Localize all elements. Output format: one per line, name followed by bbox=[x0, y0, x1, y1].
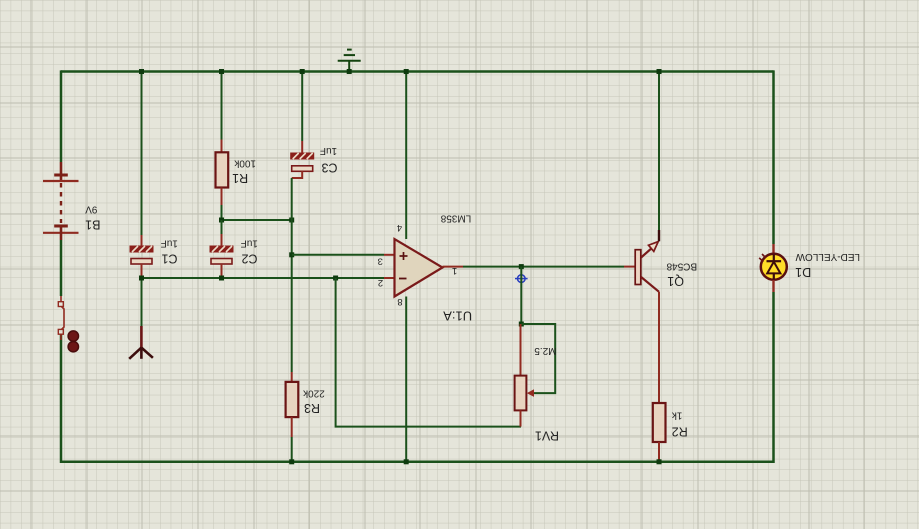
wire node A horizontal bbox=[222, 219, 292, 221]
node C2 bus junction bbox=[219, 276, 224, 281]
svg-text:9V: 9V bbox=[85, 203, 98, 214]
node feedback drop junction bbox=[333, 276, 338, 281]
resistor R1 bbox=[216, 72, 257, 206]
ref label B1 bbox=[85, 217, 100, 231]
svg-text:B1: B1 bbox=[85, 217, 100, 231]
capacitor C2 bbox=[210, 220, 258, 278]
ref label R3 bbox=[304, 401, 320, 415]
value label 9V bbox=[85, 203, 98, 214]
pin 4 number bbox=[397, 222, 402, 233]
origin marker blue crosshair bbox=[515, 272, 528, 285]
node Q1 emitter top junction bbox=[657, 69, 662, 74]
ref label RV1 bbox=[535, 429, 559, 443]
svg-text:R2: R2 bbox=[672, 424, 688, 438]
node B junction plus-input tee bbox=[289, 252, 294, 257]
potentiometer RV1 bbox=[515, 324, 559, 443]
node A junction right bbox=[289, 218, 294, 223]
ref label R2 bbox=[672, 424, 688, 438]
wire output bbox=[443, 266, 636, 268]
node RV1 top junction bbox=[519, 322, 524, 327]
svg-text:U1:A: U1:A bbox=[443, 308, 472, 323]
node C1 bus junction bbox=[139, 276, 144, 281]
value label 100k bbox=[233, 158, 256, 169]
transistor Q1 bbox=[635, 72, 697, 404]
ref label U1:A bbox=[443, 308, 472, 323]
capacitor C3 bbox=[290, 72, 337, 179]
pin 8 number bbox=[397, 296, 402, 307]
svg-text:R3: R3 bbox=[304, 401, 320, 415]
wire top rail bbox=[61, 70, 774, 73]
svg-text:LM358: LM358 bbox=[440, 213, 471, 224]
wire output to RV1 node bbox=[520, 267, 522, 324]
svg-text:BC548: BC548 bbox=[666, 261, 697, 272]
node output junction bbox=[519, 264, 524, 269]
node pin8 bottom junction bbox=[404, 459, 409, 464]
wire bottom rail bbox=[61, 461, 774, 464]
svg-text:1uF: 1uF bbox=[320, 145, 337, 156]
wire minus input bus bbox=[142, 277, 395, 279]
switch SW1 bbox=[58, 296, 78, 352]
wire feedback drop to RV1 bottom bbox=[336, 278, 521, 427]
svg-text:C3: C3 bbox=[321, 161, 337, 175]
ref label D1 bbox=[795, 265, 811, 279]
value label M2.5 bbox=[534, 345, 557, 356]
op-amp U1 bbox=[378, 213, 473, 324]
svg-text:D1: D1 bbox=[795, 265, 811, 279]
svg-text:3: 3 bbox=[378, 255, 383, 266]
value label BC548 bbox=[666, 261, 697, 272]
pin 2 number bbox=[378, 277, 383, 288]
svg-text:C2: C2 bbox=[241, 252, 257, 266]
ground symbol top bbox=[338, 50, 361, 72]
node R3 bottom junction bbox=[289, 459, 294, 464]
wire plus input bbox=[292, 254, 395, 256]
svg-text:1uF: 1uF bbox=[161, 237, 178, 248]
resistor R3 bbox=[286, 372, 325, 462]
wire C3 branch vertical bbox=[291, 178, 293, 372]
svg-text:RV1: RV1 bbox=[535, 429, 559, 443]
ref label C2 bbox=[241, 252, 257, 266]
svg-text:2: 2 bbox=[378, 277, 383, 288]
svg-text:4: 4 bbox=[397, 222, 402, 233]
LED D1 bbox=[759, 244, 860, 292]
svg-text:1k: 1k bbox=[671, 410, 683, 421]
value label 1k bbox=[671, 410, 683, 421]
svg-text:Q1: Q1 bbox=[667, 274, 684, 288]
svg-text:M2.5: M2.5 bbox=[534, 345, 557, 356]
ref label C3 bbox=[321, 161, 337, 175]
wire op-amp pin4 to top rail bbox=[405, 72, 407, 240]
node A junction left bbox=[219, 218, 224, 223]
battery B1 bbox=[43, 162, 100, 240]
ref label Q1 bbox=[667, 274, 684, 288]
svg-text:8: 8 bbox=[397, 296, 402, 307]
node C3 top junction bbox=[300, 69, 305, 74]
resistor R2 bbox=[653, 403, 688, 462]
value label 220k bbox=[302, 387, 325, 398]
value label 1uF bbox=[161, 237, 178, 248]
svg-text:LED-YELLOW: LED-YELLOW bbox=[795, 251, 860, 262]
node pin4 top junction bbox=[404, 69, 409, 74]
pin 1 number bbox=[452, 265, 457, 276]
svg-text:R1: R1 bbox=[232, 171, 248, 185]
wire R1 to node A bbox=[221, 205, 223, 220]
node R1 top junction bbox=[219, 69, 224, 74]
wire left rail battery branch bbox=[60, 70, 63, 463]
value label LED-YELLOW bbox=[795, 251, 860, 262]
pin 3 number bbox=[378, 255, 383, 266]
svg-text:1uF: 1uF bbox=[241, 237, 258, 248]
wire right rail LED branch bbox=[772, 70, 775, 463]
value label 1uF bbox=[320, 145, 337, 156]
ref label R1 bbox=[232, 171, 248, 185]
node R2 bottom junction bbox=[657, 459, 662, 464]
capacitor C1 bbox=[130, 72, 178, 279]
svg-text:220k: 220k bbox=[302, 387, 325, 398]
svg-text:C1: C1 bbox=[161, 252, 177, 266]
ref label C1 bbox=[161, 252, 177, 266]
node ground junction bbox=[347, 69, 352, 74]
wire RV1 wiper jog bbox=[521, 324, 555, 393]
ground antenna symbol below C1 bbox=[129, 278, 153, 359]
wire op-amp pin8 to bottom rail bbox=[405, 297, 407, 462]
value label 1uF bbox=[241, 237, 258, 248]
svg-text:100k: 100k bbox=[233, 158, 256, 169]
value label LM358 bbox=[440, 213, 471, 224]
node C1 top junction bbox=[139, 69, 144, 74]
